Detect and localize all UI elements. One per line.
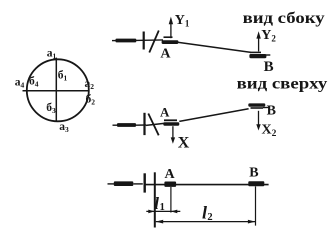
top view coupling bar — [143, 113, 145, 135]
side view arrow Y1 head — [169, 17, 173, 25]
dimension line l2 — [156, 221, 256, 223]
dimension line l1 — [146, 210, 180, 212]
svg-text:B: B — [264, 59, 274, 75]
side view shaft tail — [112, 40, 118, 42]
svg-text:Y2: Y2 — [261, 28, 276, 44]
svg-text:а2: а2 — [85, 78, 95, 91]
svg-text:A: A — [160, 47, 171, 62]
top view arrow X2 stem — [258, 111, 260, 128]
circle — [27, 59, 89, 121]
top view shaft line — [136, 124, 147, 126]
svg-text:X: X — [178, 134, 190, 151]
svg-text:B: B — [249, 165, 258, 180]
dimension l1 left arrow head — [148, 210, 154, 214]
top view arrow X head — [171, 137, 175, 143]
dimension l1 right arrow head — [171, 210, 177, 214]
bottom view sensor pad B block — [248, 181, 264, 186]
bottom view extension line at B — [255, 186, 257, 225]
side view coupling bar — [143, 32, 145, 50]
side view sensor pad A top tick — [164, 36, 173, 38]
vertical axis — [55, 58, 57, 122]
side view break slash — [149, 31, 159, 53]
top view rotor block — [117, 123, 136, 127]
svg-text:б3: б3 — [46, 102, 56, 115]
dimension l2 right arrow head — [248, 220, 256, 224]
svg-text:б2: б2 — [86, 94, 96, 107]
svg-text:а4: а4 — [15, 77, 25, 90]
bottom view coupling bar 2 extension — [154, 172, 156, 227]
side view rotor block — [116, 39, 137, 43]
svg-text:l1: l1 — [154, 194, 165, 213]
bottom view main line — [145, 184, 268, 186]
top view sensor pad A block — [163, 122, 179, 125]
svg-text:l2: l2 — [202, 202, 213, 222]
top view stub after B — [263, 106, 269, 108]
svg-text:A: A — [160, 104, 170, 119]
svg-text:B: B — [267, 104, 276, 119]
svg-text:б4: б4 — [29, 76, 39, 89]
side view sensor pad A block — [162, 40, 179, 44]
side view shaft line — [136, 39, 163, 42]
bottom view shaft line — [133, 183, 143, 185]
side view stub after B — [266, 54, 270, 56]
svg-text:а3: а3 — [59, 121, 69, 134]
dimension l2 left arrow head — [156, 220, 164, 224]
svg-text:X2: X2 — [262, 122, 277, 139]
top view arrow X stem — [172, 126, 174, 140]
side view arrow Y2 head — [256, 31, 260, 38]
side view arrow Y1 stem — [170, 20, 172, 38]
top view arrow X2 head — [256, 124, 260, 130]
bottom view coupling bar 1 — [144, 173, 146, 192]
top view sensor pad B bottom tick — [251, 107, 264, 109]
bottom view rotor block — [114, 181, 134, 186]
top view beam A to B — [179, 109, 248, 122]
side view sensor pad B top tick — [250, 52, 261, 54]
svg-text:вид сбоку: вид сбоку — [243, 10, 325, 27]
top view break backslash — [148, 114, 158, 136]
svg-text:а1: а1 — [47, 48, 57, 61]
side view beam A to B — [178, 42, 252, 52]
svg-text:вид сверху: вид сверху — [237, 75, 328, 92]
svg-text:Y1: Y1 — [175, 13, 190, 29]
top view sensor pad A top tick — [164, 119, 177, 121]
top view sensor pad B block — [248, 103, 265, 106]
top view shaft tail — [113, 124, 119, 126]
bottom view sensor pad A block — [164, 182, 176, 187]
top view line to pad A — [146, 123, 164, 125]
side view arrow Y2 stem — [258, 35, 260, 52]
side view sensor pad B block — [249, 54, 266, 58]
horizontal axis — [23, 90, 89, 92]
svg-text:A: A — [165, 167, 176, 182]
svg-text:б1: б1 — [58, 70, 68, 83]
bottom view shaft tail — [108, 183, 115, 185]
bottom view extension line at A — [170, 187, 172, 213]
